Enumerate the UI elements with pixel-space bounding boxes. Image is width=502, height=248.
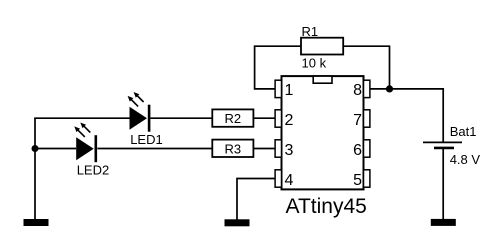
wire LED2 anode from rail (35, 148, 76, 150)
wire pin 8 to battery top (369, 89, 443, 142)
pin number 1 (285, 82, 294, 99)
svg-text:2: 2 (285, 112, 294, 129)
svg-text:R1: R1 (302, 24, 319, 39)
value label 10 k (302, 56, 327, 71)
svg-text:8: 8 (353, 82, 362, 99)
wire battery bottom to ground (442, 148, 444, 219)
LED LED1 (128, 92, 163, 147)
value label 4.8 V (450, 152, 481, 167)
pin 5 box (364, 170, 370, 187)
svg-text:1: 1 (285, 82, 294, 99)
resistor R3 (212, 140, 253, 157)
pin number 5 (353, 172, 362, 189)
wire LED1 anode from rail (34, 117, 129, 119)
svg-text:LED1: LED1 (130, 132, 163, 147)
ground right (431, 219, 456, 226)
wire R1 left lead to pin 1 (255, 46, 301, 89)
svg-text:3: 3 (285, 142, 294, 159)
battery Bat1 (423, 124, 476, 148)
wire pin 4 to ground (237, 179, 276, 220)
pin 2 box (275, 110, 281, 127)
pin number 7 (353, 112, 362, 129)
pin number 6 (353, 142, 362, 159)
pin 6 box (364, 140, 370, 157)
resistor R1 (301, 24, 343, 55)
ground middle (225, 219, 250, 226)
wire left rail vertical (34, 118, 36, 219)
svg-text:5: 5 (353, 172, 362, 189)
svg-text:7: 7 (353, 112, 362, 129)
svg-text:ATtiny45: ATtiny45 (286, 195, 367, 218)
svg-text:10 k: 10 k (302, 56, 327, 71)
wire R2 to pin 2 (253, 117, 276, 119)
svg-text:4.8 V: 4.8 V (450, 152, 481, 167)
wire R1 right lead down to node A (343, 46, 389, 89)
ground left (24, 219, 49, 226)
LED LED2 (74, 123, 109, 178)
pin 4 box (275, 170, 281, 187)
node B junction dot on left rail (32, 145, 39, 152)
wire LED2 cathode to R3 (97, 148, 212, 150)
pin 8 box (364, 80, 370, 97)
IC label ATtiny45 (286, 195, 367, 218)
svg-text:R2: R2 (224, 111, 241, 126)
pin 7 box (364, 110, 370, 127)
IC U1 ATtiny45 body (282, 76, 364, 189)
pin 3 box (275, 140, 281, 157)
wire LED1 cathode to R2 (150, 117, 212, 119)
wire R3 to pin 3 (253, 148, 276, 150)
svg-text:Bat1: Bat1 (450, 124, 477, 139)
IC notch marker (313, 76, 332, 83)
pin number 3 (285, 142, 294, 159)
svg-text:LED2: LED2 (77, 163, 110, 178)
svg-text:R3: R3 (224, 141, 241, 156)
svg-text:4: 4 (285, 172, 294, 189)
svg-text:6: 6 (353, 142, 362, 159)
pin 1 box (275, 80, 281, 97)
node A junction dot (386, 85, 393, 92)
pin number 2 (285, 112, 294, 129)
pin number 8 (353, 82, 362, 99)
resistor R2 (212, 109, 253, 126)
pin number 4 (285, 172, 294, 189)
